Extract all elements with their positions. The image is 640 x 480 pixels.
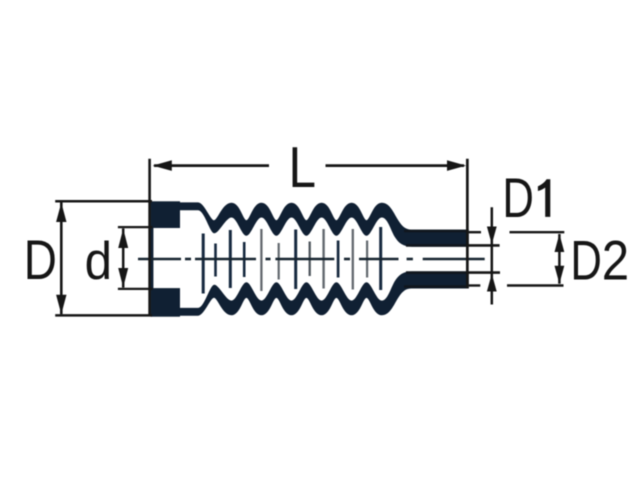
collar block (left end sleeve body)	[151, 201, 180, 316]
D dimension line	[60, 203, 63, 315]
L dimension line right segment	[326, 164, 465, 167]
center line (dash-dot)	[138, 258, 485, 261]
interior fold line 12 (short gray)	[366, 241, 368, 278]
D1 lower arrowhead (pointing up)	[487, 274, 497, 292]
D dimension: bottom extension line	[55, 314, 152, 317]
L left arrowhead	[153, 160, 172, 171]
bellows top corrugated wall + taper + tube top wall	[180, 202, 469, 246]
interior fold line 11 (long gray)	[352, 229, 354, 290]
D2 dimension: top extension line segments	[469, 231, 481, 233]
D2 bottom arrowhead (pointing down)	[555, 266, 565, 284]
interior fold line 9 (long gray)	[322, 229, 324, 289]
D1 dimension: top extension line (tube bore top extended)	[467, 244, 500, 247]
d dimension line	[122, 228, 125, 287]
tube top wall outer edge line	[404, 230, 467, 233]
D1 dimension line	[491, 207, 494, 304]
L right arrowhead	[447, 160, 466, 171]
svg-text:D: D	[502, 167, 534, 229]
D1 dimension: bottom extension line (tube bore bottom extended)	[467, 271, 500, 274]
D bottom arrowhead	[56, 295, 66, 314]
svg-text:D: D	[24, 229, 57, 291]
interior fold line 7 (long)	[294, 230, 297, 290]
d dimension: bottom extension line	[118, 288, 153, 290]
D top arrowhead	[56, 203, 66, 222]
svg-text:D: D	[570, 229, 602, 291]
interior fold line 13 (long)	[379, 227, 382, 290]
tube bottom wall outer edge line	[404, 285, 467, 288]
interior fold line 10 (short)	[337, 241, 340, 278]
interior fold line 4 (short)	[243, 242, 246, 277]
d dimension: top extension line	[118, 226, 153, 228]
interior fold line 8 (short dark gray)	[309, 242, 311, 277]
D2 top arrowhead (pointing up)	[555, 234, 565, 252]
svg-text:L: L	[289, 136, 317, 200]
interior fold line 1 (long)	[202, 234, 205, 294]
L dimension line left segment	[154, 164, 269, 167]
interior fold line 2 (short)	[214, 244, 217, 277]
L dimension: left extension line	[148, 159, 151, 317]
interior fold line 5 (long gray)	[260, 229, 262, 291]
D2 dimension: bottom extension line segments	[469, 284, 481, 286]
D1 label digit 1	[538, 179, 550, 217]
D dimension: top extension line	[55, 200, 152, 203]
interior fold line 3 (long)	[229, 230, 232, 288]
D2 dimension line	[558, 234, 561, 284]
interior fold line 6 (short gray)	[278, 243, 280, 280]
tube top wall inner (bore) edge line	[406, 244, 467, 247]
bellows bottom corrugated wall + taper + tube bottom wall	[180, 271, 469, 315]
svg-text:d: d	[85, 232, 112, 291]
tube bottom wall inner (bore) edge line	[406, 271, 467, 274]
svg-text:2: 2	[602, 230, 629, 293]
L dimension: right extension line / tube end face	[466, 159, 469, 288]
d bottom arrowhead	[118, 268, 128, 287]
D1 upper arrowhead (pointing down)	[487, 227, 497, 245]
d top arrowhead	[118, 229, 128, 248]
